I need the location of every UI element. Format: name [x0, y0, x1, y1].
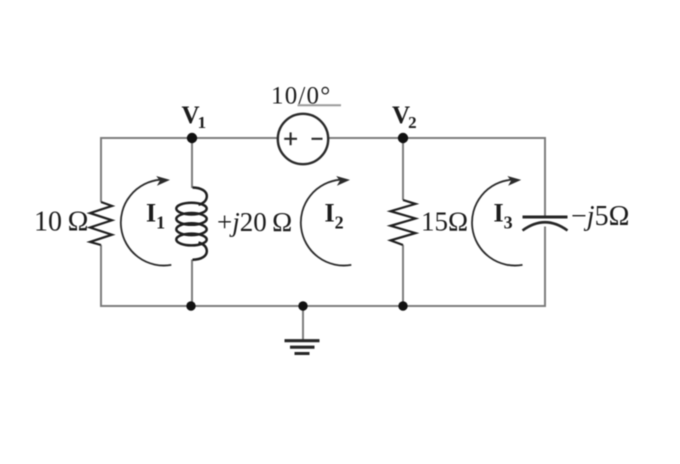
svg-text:−j5Ω: −j5Ω [571, 201, 629, 232]
svg-text:15Ω: 15Ω [421, 207, 468, 237]
svg-text:+j20 Ω: +j20 Ω [217, 207, 292, 237]
svg-text:10 Ω: 10 Ω [34, 207, 88, 238]
